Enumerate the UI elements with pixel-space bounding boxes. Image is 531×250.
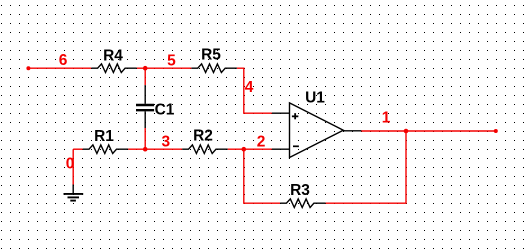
svg-text:2: 2 <box>257 134 266 151</box>
svg-text:3: 3 <box>161 133 170 150</box>
svg-text:4: 4 <box>245 79 254 96</box>
svg-text:R4: R4 <box>103 48 123 65</box>
svg-text:1: 1 <box>382 109 391 126</box>
svg-text:R1: R1 <box>94 128 114 145</box>
svg-text:U1: U1 <box>305 89 325 106</box>
svg-text:6: 6 <box>59 52 68 69</box>
svg-text:C1: C1 <box>155 102 175 119</box>
svg-text:R2: R2 <box>193 128 213 145</box>
svg-text:R3: R3 <box>290 182 310 199</box>
svg-text:0: 0 <box>66 156 75 173</box>
svg-text:5: 5 <box>167 52 176 69</box>
svg-text:R5: R5 <box>201 46 221 63</box>
